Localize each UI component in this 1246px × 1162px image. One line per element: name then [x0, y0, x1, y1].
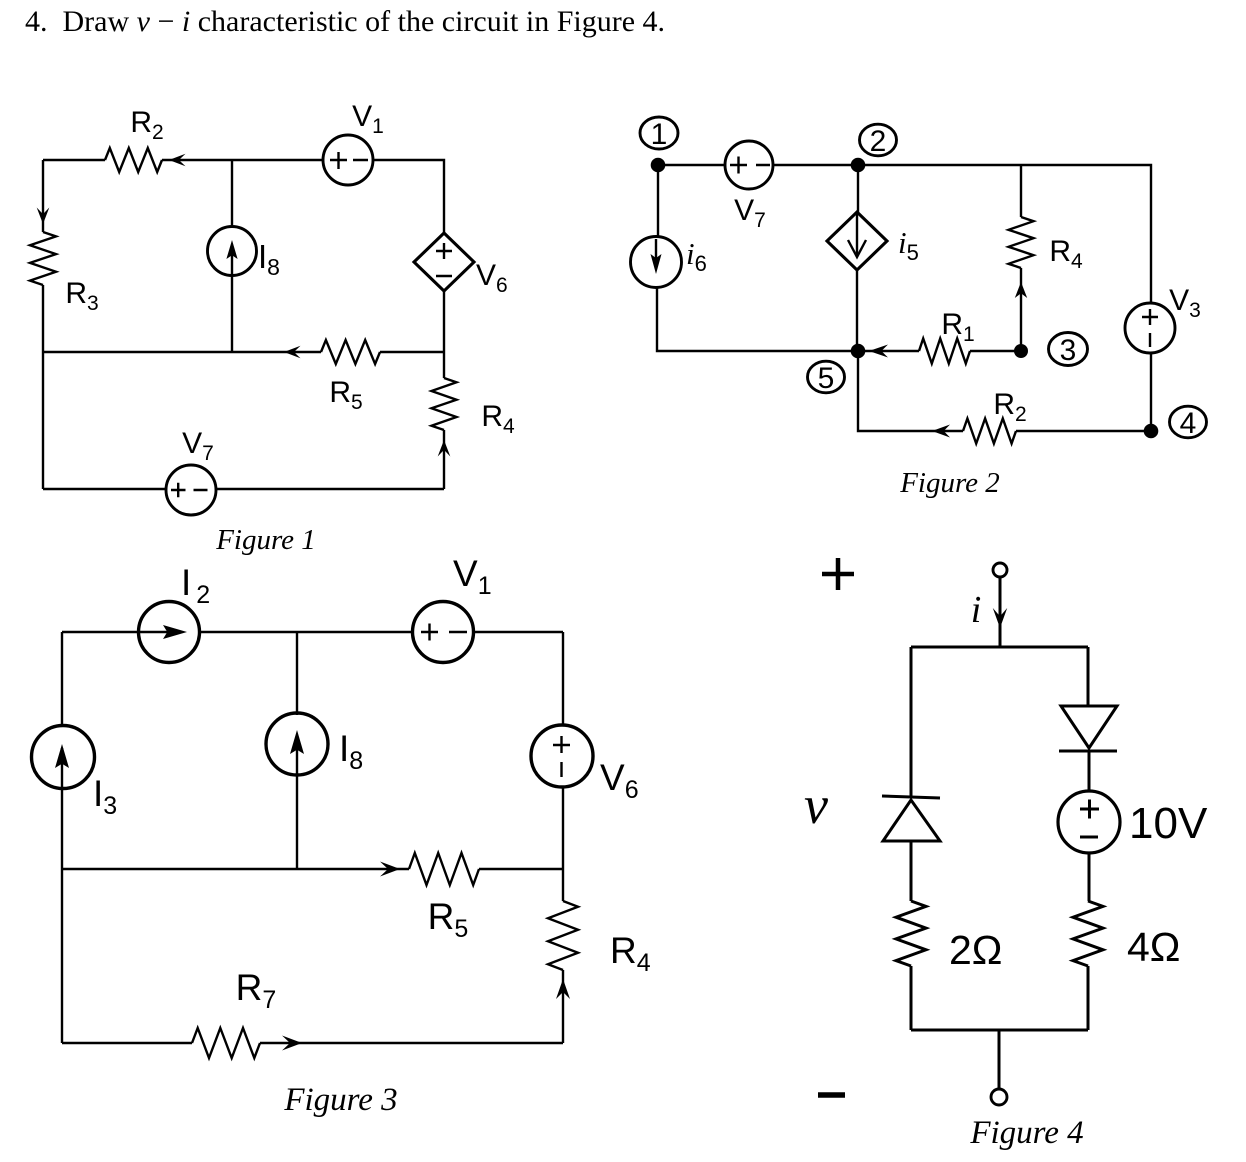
svg-text:R5: R5 [428, 896, 469, 943]
arrow left on fig1 top wire [169, 154, 186, 167]
wire fig1 bottom [43, 488, 444, 490]
wire fig4 top [911, 646, 1088, 649]
svg-text:I 2: I 2 [181, 562, 210, 609]
svg-text:10V: 10V [1129, 799, 1208, 848]
svg-text:v: v [804, 775, 828, 835]
resistor R2 fig2 [963, 419, 1016, 444]
wire fig4 right mid upper [1088, 751, 1091, 791]
svg-text:R7: R7 [236, 967, 277, 1014]
arrow left toward node 5 [869, 345, 888, 358]
wire i5 top lead [857, 165, 859, 212]
svg-text:R2: R2 [993, 388, 1026, 426]
wire V6 bottom to mid wire [443, 291, 445, 352]
svg-text:V6: V6 [600, 757, 639, 804]
svg-text:V1: V1 [352, 100, 384, 138]
node 5 label [808, 361, 845, 393]
svg-text:5: 5 [818, 362, 835, 395]
arrow left on fig2 bottom [932, 425, 950, 438]
svg-text:2Ω: 2Ω [949, 927, 1002, 973]
wire fig4 right mid lower [1088, 853, 1091, 901]
top lead wire [999, 577, 1002, 647]
bottom terminal [991, 1089, 1007, 1105]
arrow up on fig3 right wire [556, 979, 570, 999]
svg-text:i6: i6 [686, 236, 707, 276]
svg-text:i5: i5 [898, 225, 919, 265]
wire fig4 bottom [911, 1029, 1088, 1032]
node 1 dot [651, 158, 666, 173]
svg-text:1: 1 [651, 118, 668, 151]
voltage source V1 [323, 135, 373, 185]
svg-text:Figure 4: Figure 4 [969, 1115, 1083, 1151]
arrow up on fig1 right wire [438, 440, 451, 457]
svg-text:4: 4 [1180, 407, 1197, 440]
resistor 4 ohm [1073, 901, 1103, 966]
wire fig2 left lower [657, 287, 858, 351]
resistor R5 fig3 [409, 853, 479, 885]
wire i5 to node 5 [856, 270, 858, 351]
svg-text:V1: V1 [453, 553, 492, 600]
wire fig1 left vertical [42, 160, 44, 489]
voltage source V6 fig3 [531, 725, 593, 787]
node 5 dot [851, 344, 866, 359]
wire fig1 I8 branch [231, 160, 233, 352]
resistor 2 ohm [896, 901, 926, 966]
arrow right on fig3 mid wire [380, 862, 400, 877]
svg-text:2: 2 [870, 125, 887, 158]
voltage source V7 fig1 [166, 465, 216, 515]
arrow right on fig3 bottom wire [282, 1036, 302, 1051]
diode D2 triangle [1061, 706, 1117, 748]
wire fig1 top-mid segment [162, 159, 324, 161]
resistor R2 [105, 148, 162, 172]
dependent source i5 [827, 212, 887, 270]
wire fig1 right lower [443, 352, 445, 489]
voltage source V3 [1125, 303, 1175, 353]
svg-text:V3: V3 [1169, 284, 1201, 322]
arrow i downward [993, 608, 1007, 628]
svg-text:V6: V6 [476, 259, 508, 297]
svg-text:V7: V7 [734, 194, 766, 232]
resistor R1 fig2 [919, 339, 970, 364]
wire fig3 right upper [562, 632, 564, 869]
bottom lead wire [998, 1030, 1001, 1089]
svg-text:Figure 1: Figure 1 [215, 524, 316, 556]
plus terminal sign [822, 558, 854, 590]
wire fig3 left vertical [61, 632, 63, 1043]
wire R1 segment [858, 350, 1021, 352]
svg-text:I8: I8 [339, 728, 363, 775]
svg-text:i: i [971, 589, 982, 631]
wire fig2 top [658, 165, 1151, 303]
source 10V [1058, 791, 1120, 853]
minus terminal sign [818, 1092, 845, 1098]
wire fig4 right lower [1087, 966, 1090, 1030]
svg-text:R4: R4 [481, 400, 515, 438]
current source I2 [139, 602, 200, 663]
wire fig3 right lower [562, 869, 564, 1043]
wire fig4 left upper [910, 647, 913, 796]
svg-text:R4: R4 [610, 930, 651, 977]
voltage source V7 fig2 [725, 141, 773, 189]
wire fig4 left mid [910, 841, 913, 901]
current source I8 [208, 227, 257, 276]
current source i6 [631, 237, 682, 288]
wire fig2 bottom [858, 351, 1151, 431]
diode D2 cathode bar [1059, 750, 1117, 753]
voltage source V1 fig3 [413, 602, 474, 663]
node 1 label [640, 117, 678, 149]
svg-text:R4: R4 [1049, 235, 1083, 273]
arrow up on R4 branch fig2 [1015, 282, 1027, 298]
node 2 dot [851, 158, 866, 173]
diode D1 cathode bar [882, 796, 940, 798]
resistor R4 fig2 [1009, 217, 1034, 268]
wire fig1 top-right and right down to V6 [372, 160, 444, 233]
svg-text:I3: I3 [93, 773, 117, 820]
wire fig4 right upper [1087, 647, 1090, 706]
wire fig3 mid horizontal [62, 868, 563, 870]
node 2 label [860, 124, 897, 156]
svg-text:3: 3 [1060, 334, 1077, 367]
svg-text:R2: R2 [130, 106, 163, 144]
wire fig3 bottom [62, 1042, 563, 1044]
arrow left on fig1 mid wire [284, 346, 301, 359]
resistor R4 fig3 [548, 901, 578, 970]
wire fig1 top-left segment [43, 159, 105, 161]
wire fig1 mid horizontal [43, 351, 444, 353]
node 4 label [1170, 406, 1207, 438]
svg-text:I8: I8 [258, 238, 280, 280]
resistor R3 [30, 232, 56, 285]
resistor R7 [192, 1028, 260, 1058]
node 3 label [1049, 333, 1088, 366]
current source I3 [32, 726, 95, 789]
current source I8 fig3 [266, 713, 328, 775]
resistor R5 [321, 340, 380, 364]
svg-text:Figure 2: Figure 2 [899, 467, 1000, 499]
top terminal [993, 563, 1007, 577]
svg-text:4Ω: 4Ω [1127, 924, 1180, 970]
wire fig3 mid branch [296, 632, 298, 869]
arrow down on fig1 left wire [37, 208, 50, 225]
wire R4 branch fig2 [1020, 165, 1022, 351]
svg-text:R3: R3 [65, 277, 98, 315]
svg-text:R5: R5 [329, 376, 362, 414]
wire fig3 top [62, 631, 563, 633]
resistor R4 fig1 [432, 378, 457, 430]
svg-text:R1: R1 [941, 308, 974, 346]
svg-text:Figure 3: Figure 3 [283, 1082, 397, 1118]
dependent source V6 [414, 233, 474, 291]
wire i6 top lead [657, 165, 659, 237]
wire fig4 left lower [910, 966, 913, 1030]
node 4 dot [1144, 424, 1159, 439]
title [25, 5, 665, 39]
node 3 dot [1014, 344, 1028, 358]
svg-text:V7: V7 [182, 427, 214, 465]
diode D1 triangle [883, 800, 940, 841]
